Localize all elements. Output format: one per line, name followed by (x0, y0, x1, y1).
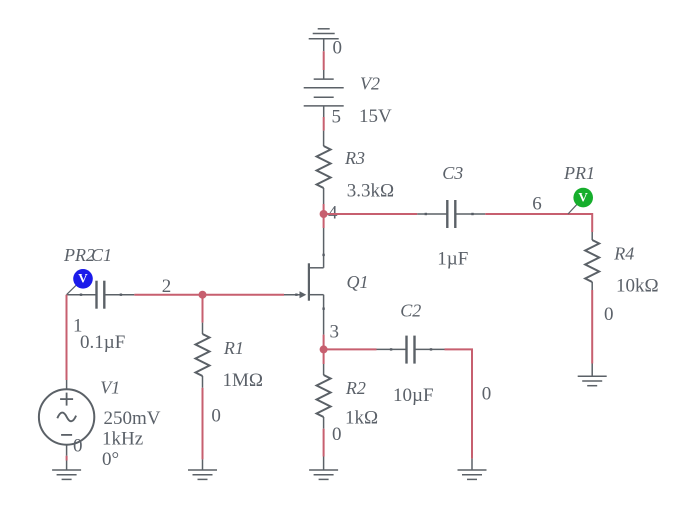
svg-text:0: 0 (73, 435, 83, 456)
svg-text:5: 5 (332, 106, 342, 127)
svg-text:1MΩ: 1MΩ (223, 370, 264, 391)
ground top (inverted, net 0) (309, 29, 339, 51)
svg-text:R4: R4 (613, 244, 634, 264)
wire R4 to ground (591, 290, 593, 364)
wire R1 to ground (202, 388, 204, 460)
svg-text:1kHz: 1kHz (102, 429, 143, 450)
ground (R1) (188, 459, 217, 479)
wire Q1 source down (323, 295, 325, 335)
wire C2 to ground corner (445, 349, 473, 458)
svg-text:C2: C2 (400, 301, 421, 321)
svg-text:3: 3 (330, 322, 340, 343)
wire top ground to V2 (323, 51, 325, 70)
svg-text:1µF: 1µF (437, 249, 468, 270)
wire node 3 to C2 (324, 348, 377, 350)
svg-text:10kΩ: 10kΩ (616, 275, 659, 296)
capacitor C1 (67, 281, 135, 309)
capacitor pin marks (80, 213, 474, 351)
battery V2 (304, 70, 344, 117)
resistor R4 (585, 232, 599, 290)
svg-text:V1: V1 (100, 378, 120, 398)
svg-text:3.3kΩ: 3.3kΩ (347, 181, 394, 202)
svg-text:PR1: PR1 (563, 163, 595, 183)
svg-text:1kΩ: 1kΩ (345, 408, 378, 429)
source V1 (39, 380, 94, 445)
svg-text:0°: 0° (102, 449, 119, 470)
resistor R1 (196, 323, 210, 388)
wire V1 to ground (66, 456, 68, 461)
svg-text:R3: R3 (344, 148, 365, 168)
svg-text:Q1: Q1 (347, 272, 369, 292)
svg-text:6: 6 (532, 193, 542, 214)
resistor R3 (317, 131, 331, 204)
wire C1 corner to V1 (66, 295, 68, 380)
wire node 3 to R2 (323, 349, 325, 364)
node 3 junction dot (320, 345, 328, 353)
svg-text:0: 0 (332, 424, 342, 445)
capacitor C2 (377, 336, 445, 364)
Q1 pin marks (295, 254, 325, 310)
transistor Q1 (N-JFET) (284, 228, 324, 301)
resistor R2 (317, 364, 331, 429)
svg-text:V: V (578, 190, 588, 205)
node 4 junction dot (320, 210, 328, 218)
wire gate (node 2 to Q1) (203, 294, 285, 296)
svg-text:V: V (78, 271, 88, 286)
svg-text:R1: R1 (223, 338, 244, 358)
probe PR1 circle (573, 188, 593, 208)
wire node 4 to C3 (324, 213, 418, 215)
svg-text:0: 0 (333, 38, 343, 59)
svg-text:10µF: 10µF (393, 385, 434, 406)
wire R3 to node 4 (323, 204, 325, 214)
svg-text:PR2: PR2 (63, 245, 95, 265)
ground (V1) (52, 445, 81, 480)
svg-text:0: 0 (211, 405, 221, 426)
svg-text:250mV: 250mV (104, 408, 161, 429)
ground (C2) (458, 459, 487, 480)
ground (R4) (578, 364, 607, 386)
wire C1 to node 2 (134, 294, 202, 296)
wire node 2 to R1 (202, 295, 204, 323)
svg-text:0.1µF: 0.1µF (80, 332, 125, 353)
wire R2 to ground (323, 429, 325, 457)
wire V2 to R3 (323, 117, 325, 131)
svg-text:C3: C3 (442, 163, 463, 183)
svg-text:0: 0 (482, 384, 492, 405)
svg-text:R2: R2 (345, 378, 366, 398)
node 2 junction dot (199, 291, 207, 299)
svg-text:15V: 15V (359, 106, 392, 127)
probe PR2 circle (73, 269, 93, 289)
capacitor C3 (417, 200, 485, 228)
wire C3 to R4 corner (485, 214, 592, 232)
svg-text:0: 0 (604, 304, 614, 325)
ground (R2) (309, 457, 338, 480)
probe PR1 pointer tick (568, 204, 577, 214)
svg-text:V2: V2 (360, 74, 380, 94)
probe PR2 pointer tick (67, 285, 77, 295)
wire node 4 to Q1 drain (323, 214, 325, 228)
